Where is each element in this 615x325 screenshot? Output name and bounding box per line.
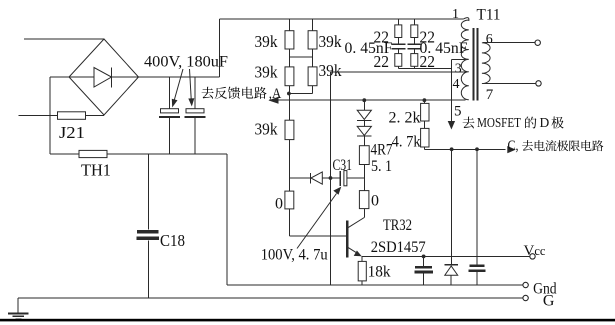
svg-text:G: G <box>543 293 555 310</box>
resistor 18k <box>358 256 391 285</box>
svg-text:1: 1 <box>452 7 459 22</box>
wire drop to clamp capacitor <box>476 149 478 264</box>
svg-text:7: 7 <box>486 87 494 103</box>
resistor J21 <box>58 112 86 142</box>
svg-text:5: 5 <box>454 104 462 120</box>
wire left rail down to Gnd bus <box>226 154 228 285</box>
pin label 4 <box>453 77 460 92</box>
svg-text:J21: J21 <box>59 123 85 142</box>
svg-text:39k: 39k <box>255 120 278 139</box>
wire Gnd bus <box>227 284 523 286</box>
wire secondary pin6 with terminal <box>483 40 540 45</box>
capacitor C31 <box>331 157 365 186</box>
svg-text:C31: C31 <box>333 157 353 174</box>
terminal G <box>523 293 555 310</box>
resistor TH1 <box>50 150 227 179</box>
svg-text:400V, 180uF: 400V, 180uF <box>144 54 228 71</box>
svg-text:D: D <box>540 115 550 130</box>
labels 22 right column <box>420 28 436 71</box>
arrow and label: to feedback circuit, node A <box>202 86 282 104</box>
wire feedback line A <box>278 99 465 101</box>
junction dot C line 2 <box>475 147 479 151</box>
wire 39k column stubs <box>289 19 313 120</box>
resistor R 39k row1 left <box>255 31 294 51</box>
capacitor 400V 180uF #1 <box>159 77 180 154</box>
snubber column 1: resistor 22, capacitor 0.45nF, resistor 22 <box>391 19 405 68</box>
wire positive bus from bridge <box>139 19 220 77</box>
wire C line to current limit circuit with arrow <box>424 138 603 154</box>
svg-text:39k: 39k <box>255 63 278 82</box>
wire top rail <box>220 18 464 20</box>
bridge rectifier <box>69 39 139 115</box>
wire snubber tie to pin5 line <box>398 67 451 69</box>
svg-text:TH1: TH1 <box>81 161 111 180</box>
junction dot at mid vertical <box>329 176 333 180</box>
svg-text:4R7: 4R7 <box>371 142 393 159</box>
svg-text:0. 45nF: 0. 45nF <box>345 40 393 57</box>
transformer tap wire pin5 top <box>451 58 467 60</box>
junction dot Vcc <box>422 255 426 259</box>
pin label 1 <box>452 7 459 22</box>
junction dot diode column <box>362 98 366 102</box>
label 0.45nF right <box>420 40 468 57</box>
svg-text:39k: 39k <box>319 32 342 51</box>
svg-text:Vcc: Vcc <box>524 243 546 259</box>
wire G bus <box>18 297 523 299</box>
capacitor Vcc filter <box>414 256 433 285</box>
clamp diode (up) <box>445 265 459 286</box>
pin label 5 <box>454 104 462 120</box>
wire pin5 to MOSFET drain with arrow <box>448 59 564 130</box>
capacitor 400V 180uF #2 <box>184 77 205 154</box>
svg-text:0: 0 <box>371 193 379 210</box>
resistor R 39k row2 left <box>255 63 294 86</box>
wire pin3 line <box>331 71 467 73</box>
wire AC input bottom <box>19 115 105 117</box>
svg-text:4. 7k: 4. 7k <box>392 134 421 151</box>
wire secondary pin7 with terminal <box>483 81 541 86</box>
diode D1 (down) <box>357 100 371 120</box>
wire drop to clamp diode <box>451 149 453 264</box>
labels 22 left column <box>374 28 390 71</box>
capacitor C18 <box>137 154 186 298</box>
svg-text:100V, 4. 7u: 100V, 4. 7u <box>261 247 328 264</box>
svg-text:MOSFET: MOSFET <box>477 115 522 130</box>
diode D2 (down) <box>357 120 371 136</box>
svg-text:2. 2k: 2. 2k <box>389 110 421 127</box>
node A junction dot <box>287 92 291 96</box>
ground symbol <box>8 298 29 319</box>
resistor 0 ohm left <box>275 191 294 212</box>
wire mid vertical rail <box>330 72 332 285</box>
label 100V 4.7u with pointer arrow to C31 <box>261 187 342 264</box>
snubber column 2: resistor 22, capacitor 0.45nF, resistor 22 <box>407 19 421 68</box>
svg-text:2SD1457: 2SD1457 <box>371 239 426 256</box>
wire Vcc rail with terminal <box>362 243 546 259</box>
terminal Gnd <box>523 281 557 298</box>
svg-text:5. 1: 5. 1 <box>371 158 392 175</box>
resistor R 39k row3 <box>255 120 294 192</box>
junction dot 2.2k column <box>423 98 427 102</box>
svg-text:TR32: TR32 <box>383 217 412 234</box>
svg-text:18k: 18k <box>368 264 391 281</box>
resistor 4.7k <box>392 128 429 150</box>
pin label 3 <box>455 62 462 77</box>
wire AC input top <box>24 38 104 40</box>
svg-text:39k: 39k <box>255 32 278 51</box>
svg-text:4: 4 <box>453 77 460 92</box>
label 400V, 180uF with pointer arrows <box>144 54 228 108</box>
resistor R 39k row2 right <box>308 61 342 86</box>
transistor TR32 2SD1457 <box>347 217 425 258</box>
transformer T11 <box>461 7 500 101</box>
resistor 2.2k <box>389 100 430 128</box>
svg-text:0. 45nF: 0. 45nF <box>420 40 468 57</box>
svg-text:3: 3 <box>455 62 462 77</box>
resistor 4R7 5.1 <box>359 136 392 190</box>
svg-text:0: 0 <box>275 196 283 213</box>
svg-text:C18: C18 <box>160 231 185 250</box>
wire to transistor base <box>289 209 346 236</box>
bottom border bar <box>0 319 615 322</box>
svg-text:C,: C, <box>508 138 519 154</box>
svg-text:T11: T11 <box>477 7 501 24</box>
svg-text:6: 6 <box>486 32 493 47</box>
clamp capacitor <box>468 266 485 285</box>
resistor 0 ohm right <box>359 191 379 218</box>
resistor R 39k row1 right <box>308 31 342 51</box>
pin label 6 <box>486 32 493 47</box>
label 0.45nF left <box>345 40 393 57</box>
svg-text:,A: ,A <box>269 86 282 102</box>
junction dot C line 1 <box>450 147 454 151</box>
pin label 7 <box>486 87 494 103</box>
diode D (cathode left) <box>289 172 329 184</box>
wire bridge left to negative rail <box>50 77 69 154</box>
